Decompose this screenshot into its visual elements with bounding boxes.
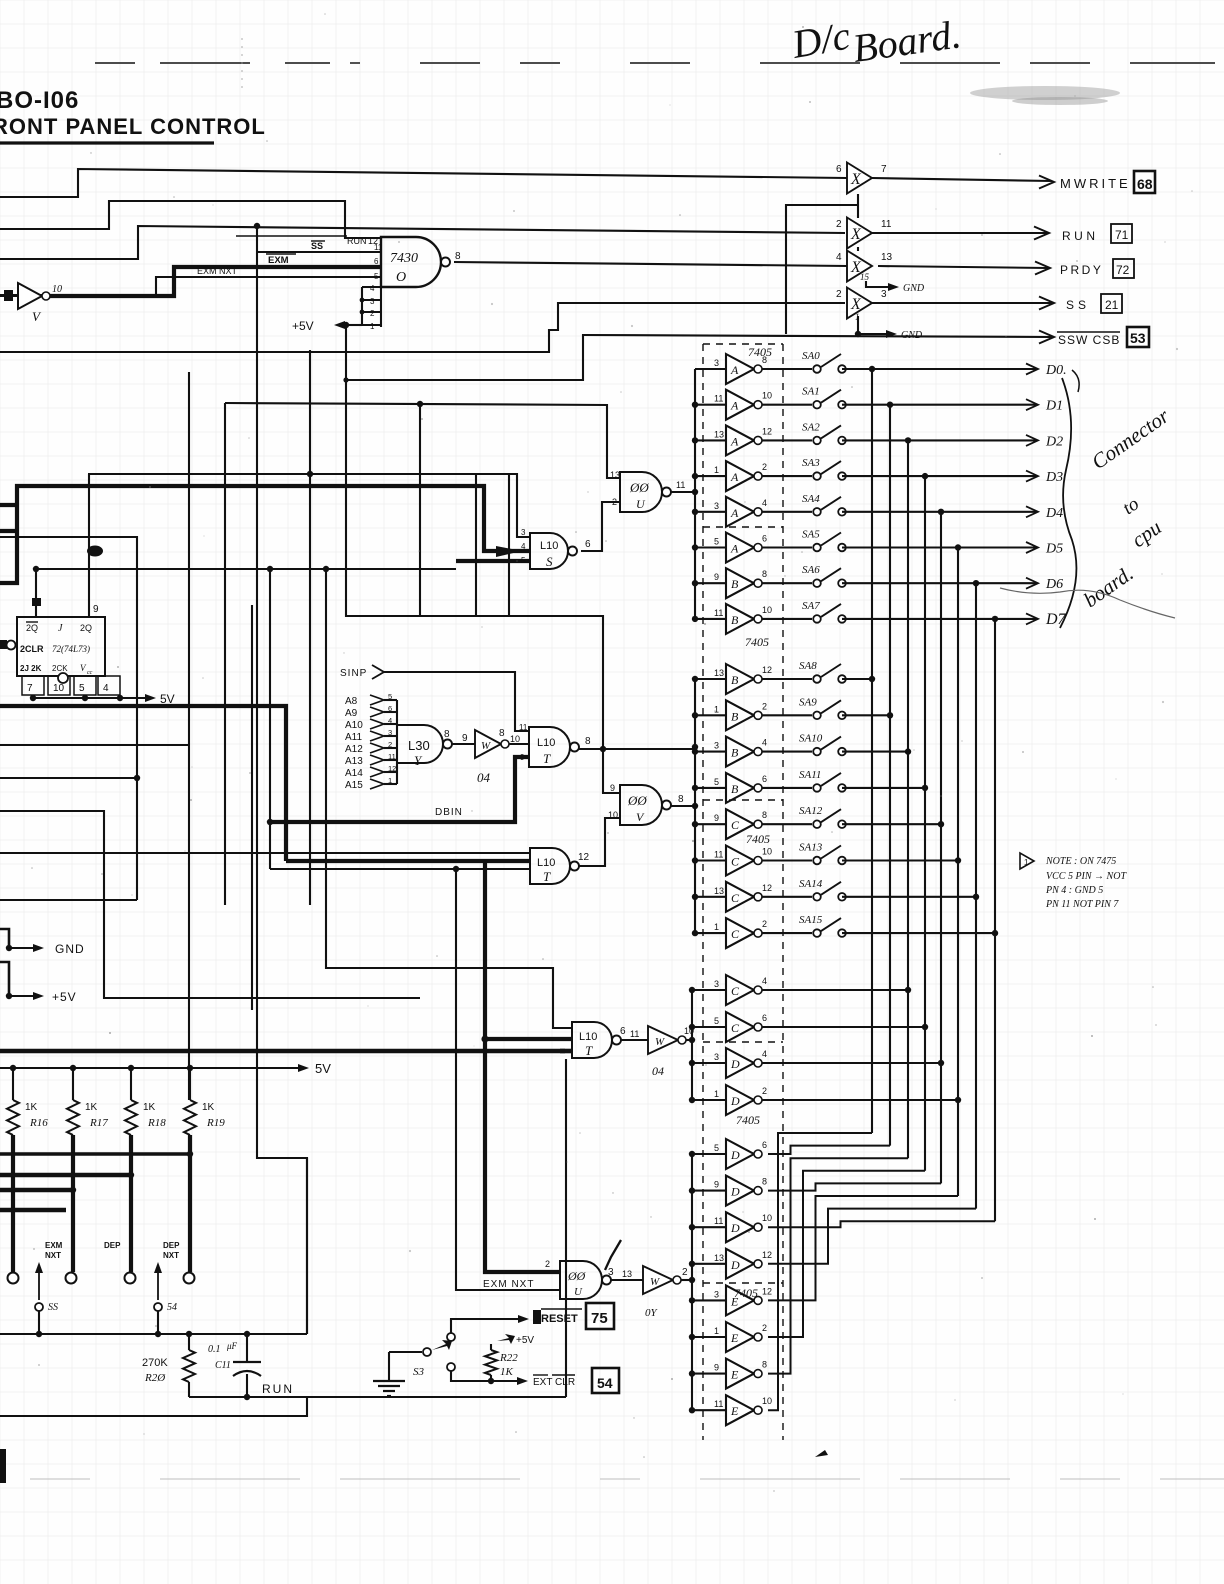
pin box 68 — [1134, 171, 1155, 193]
svg-text:D6: D6 — [1045, 577, 1063, 592]
wire L10T lower out to phiV pin10 — [579, 818, 620, 866]
svg-text:A15: A15 — [345, 780, 363, 791]
svg-text:2: 2 — [762, 701, 767, 711]
svg-text:3: 3 — [881, 289, 887, 300]
svg-text:SA6: SA6 — [802, 564, 820, 576]
wire 5V rail thin — [0, 1067, 303, 1069]
svg-text:B: B — [731, 613, 739, 627]
svg-text:3: 3 — [714, 501, 719, 511]
bus vertical 1 — [889, 405, 891, 1146]
bus vertical 0 — [871, 369, 873, 1133]
wire SS output — [872, 302, 1052, 304]
svg-text:13: 13 — [714, 668, 724, 678]
svg-text:6: 6 — [585, 539, 591, 550]
switch SA10 — [762, 751, 812, 753]
svg-text:1K: 1K — [25, 1102, 38, 1113]
inverter 7405 C SA14 — [726, 882, 754, 912]
inverter W bottom — [643, 1266, 673, 1294]
wire output ccdd0 to bus — [762, 989, 908, 991]
wire L10S out to phiU pin2 — [581, 502, 620, 551]
svg-text:2: 2 — [612, 497, 617, 507]
svg-text:SA8: SA8 — [799, 660, 817, 672]
wire 7430 pin12 input RUN-bar — [0, 201, 381, 238]
wire vertical x225 — [224, 403, 226, 905]
svg-text:C: C — [731, 984, 740, 998]
svg-text:13: 13 — [714, 886, 724, 896]
svg-text:L10: L10 — [537, 737, 555, 749]
svg-text:2CLR: 2CLR — [20, 644, 44, 654]
svg-text:6: 6 — [620, 1026, 626, 1037]
wire SA8 input stub — [695, 678, 726, 680]
svg-text:D: D — [730, 1221, 740, 1235]
svg-text:RUN: RUN — [262, 1382, 294, 1396]
wire D6 line — [842, 582, 1036, 584]
inverter 7405 E low row 8 — [726, 1395, 754, 1425]
svg-text:3: 3 — [714, 1052, 719, 1062]
svg-text:2J 2K: 2J 2K — [20, 664, 42, 673]
wire SSW CSB feed — [346, 334, 583, 380]
svg-text:RESET: RESET — [541, 1313, 578, 1325]
wire staircase 5 — [768, 1196, 958, 1337]
svg-text:10: 10 — [762, 1213, 772, 1223]
svg-text:3: 3 — [388, 728, 392, 737]
wire input stub low2 — [692, 1226, 726, 1228]
inverter 7405 A SA0 — [726, 354, 754, 384]
wire SA4 input stub — [695, 511, 726, 513]
svg-text:9: 9 — [462, 733, 468, 744]
inverter 7405 D low row 4 — [726, 1249, 754, 1279]
wire frame upper from +5V junction — [343, 322, 349, 328]
wire bottom rect — [0, 1397, 307, 1416]
wire 7430 pin6 input EXM bold — [43, 267, 381, 296]
svg-text:7405: 7405 — [745, 635, 769, 649]
wire RUN output — [872, 232, 1047, 234]
switch SA4 — [762, 511, 812, 513]
wire SA3 input stub — [695, 475, 726, 477]
svg-text:SS: SS — [311, 241, 323, 251]
svg-text:B: B — [731, 709, 739, 723]
svg-text:3: 3 — [714, 741, 719, 751]
svg-text:ØØ: ØØ — [627, 793, 647, 808]
svg-text:2: 2 — [762, 919, 767, 929]
gate L10 T lower — [530, 848, 570, 884]
pin box 53 — [1127, 327, 1149, 347]
inverter 7405 E low row 7 — [726, 1359, 754, 1389]
wire 7430 lower pin ladder — [361, 287, 363, 325]
inverter 7405 A SA2 — [726, 425, 754, 455]
svg-text:SS: SS — [1066, 298, 1090, 312]
wire input stub ccdd1 — [692, 1026, 726, 1028]
svg-text:R16: R16 — [29, 1117, 48, 1129]
svg-text:L10: L10 — [540, 540, 558, 552]
svg-text:6: 6 — [836, 164, 842, 175]
wire SA14 to bus — [842, 896, 976, 898]
svg-text:R22: R22 — [499, 1352, 518, 1364]
wire D4 line — [842, 511, 1036, 513]
wire 5V from flip-flop — [33, 695, 150, 698]
wire RUN line — [189, 1396, 566, 1398]
svg-text:J: J — [58, 623, 63, 634]
svg-text:12: 12 — [762, 883, 772, 893]
wire RUN feed — [0, 226, 845, 259]
wire bold branch to EXM NXT gate — [485, 861, 560, 1272]
svg-text:11: 11 — [881, 219, 892, 230]
inverter 7405 A SA5 — [726, 533, 754, 563]
wire SA10 input stub — [695, 751, 726, 753]
svg-text:A9: A9 — [345, 708, 358, 719]
wire bus2 input feed — [694, 679, 696, 933]
svg-text:10: 10 — [53, 683, 65, 694]
scan artifact dashed line top — [95, 62, 135, 64]
svg-text:7405: 7405 — [748, 345, 772, 359]
scan artifact dashed line bottom — [30, 1478, 90, 1480]
switch SA15 — [762, 932, 812, 934]
svg-text:8: 8 — [678, 794, 684, 805]
svg-text:O: O — [396, 270, 406, 285]
wire staircase 4 — [768, 1183, 941, 1300]
wire phiV pin9 riser — [603, 747, 620, 793]
wire L10T out — [579, 748, 695, 750]
svg-text:8: 8 — [762, 810, 767, 820]
frame junction dot — [343, 377, 348, 382]
svg-text:2: 2 — [762, 1323, 767, 1333]
wire left h474 to L10S pin3 — [88, 474, 530, 537]
note triangle marker — [1020, 853, 1034, 869]
wire bold switch row A — [0, 1152, 190, 1155]
wire bold rail y1050 — [0, 1049, 565, 1054]
svg-text:6: 6 — [374, 257, 379, 266]
svg-text:5: 5 — [388, 692, 392, 701]
svg-text:A: A — [730, 506, 739, 520]
svg-text:A: A — [730, 470, 739, 484]
svg-text:270K: 270K — [142, 1357, 168, 1369]
svg-text:SA12: SA12 — [799, 805, 823, 817]
wire R18 bottom lead — [129, 1135, 133, 1272]
svg-text:A8: A8 — [345, 696, 358, 707]
switch SA9 — [762, 714, 812, 716]
svg-text:MWRITE: MWRITE — [1060, 176, 1131, 191]
svg-text:3: 3 — [370, 297, 375, 306]
svg-text:13: 13 — [881, 252, 893, 263]
svg-text:2: 2 — [682, 1267, 688, 1278]
wire SA12 input stub — [695, 823, 726, 825]
inverter 7405 A SA4 — [726, 497, 754, 527]
gate L10 T upper — [529, 727, 570, 767]
inverter 7405 B SA10 — [726, 737, 754, 767]
svg-text:W: W — [655, 1036, 665, 1048]
svg-text:4: 4 — [762, 498, 767, 508]
svg-text:BO-I06: BO-I06 — [0, 87, 79, 114]
wire R19 bottom lead — [188, 1135, 192, 1272]
svg-text:4: 4 — [762, 1049, 767, 1059]
svg-text:7405: 7405 — [746, 832, 770, 846]
wire SA14 input stub — [695, 896, 726, 898]
svg-text:SA0: SA0 — [802, 350, 820, 362]
svg-text:EXM: EXM — [268, 255, 289, 266]
svg-text:W: W — [481, 740, 491, 752]
svg-text:PN 4 : GND 5: PN 4 : GND 5 — [1045, 885, 1103, 896]
svg-text:4: 4 — [103, 683, 109, 694]
svg-text:8: 8 — [499, 728, 505, 739]
svg-text:7405: 7405 — [736, 1113, 760, 1127]
svg-text:1: 1 — [714, 922, 719, 932]
inverter W 04 — [475, 730, 501, 758]
svg-text:X: X — [850, 296, 862, 313]
svg-text:10: 10 — [762, 391, 772, 401]
svg-text:SA4: SA4 — [802, 493, 820, 505]
svg-text:2Q: 2Q — [80, 623, 92, 633]
wire vertical x189 long — [188, 372, 190, 1100]
wire R17 top stub — [72, 1068, 74, 1100]
svg-text:3: 3 — [521, 528, 526, 537]
wire bold P3 EXM-NXT path — [0, 706, 286, 861]
svg-text:SA13: SA13 — [799, 842, 823, 854]
svg-text:12: 12 — [762, 426, 772, 436]
svg-text:SA11: SA11 — [799, 769, 821, 781]
wire R18 top stub — [130, 1068, 132, 1100]
switch SA11 — [762, 787, 812, 789]
svg-text:L30: L30 — [408, 738, 430, 753]
svg-text:4: 4 — [388, 716, 392, 725]
resistor R18 1K — [125, 1100, 137, 1135]
gate L30 Y — [397, 725, 443, 763]
svg-text:12: 12 — [762, 665, 772, 675]
wire W to L10T — [509, 743, 529, 745]
wire bold P1 to L10S pin4 — [0, 486, 530, 583]
wire SA12 to bus — [842, 823, 941, 825]
wire SA15 to bus — [842, 932, 995, 934]
svg-text:SA3: SA3 — [802, 457, 820, 469]
svg-text:11: 11 — [630, 1029, 639, 1039]
svg-text:A14: A14 — [345, 768, 363, 779]
wire to RESET — [451, 1319, 523, 1333]
svg-text:12: 12 — [762, 1250, 772, 1260]
wire SA0 input stub — [695, 368, 726, 370]
svg-text:T: T — [543, 869, 551, 884]
switch terminal 1 — [8, 1273, 19, 1284]
switch S3 throw down — [447, 1363, 455, 1371]
svg-text:L10: L10 — [579, 1031, 597, 1043]
inverter 7405 C row 2 — [726, 1012, 754, 1042]
wire staircase 6 — [768, 1209, 976, 1374]
hook after D0 — [1072, 370, 1079, 392]
wire buffer chain vertical — [857, 194, 859, 218]
svg-text:04: 04 — [652, 1064, 664, 1078]
svg-text:1: 1 — [370, 322, 375, 331]
svg-text:D: D — [730, 1185, 740, 1199]
svg-text:cc: cc — [87, 670, 93, 676]
wire D5 line — [842, 546, 1036, 548]
svg-text:B: B — [731, 673, 739, 687]
svg-text:68: 68 — [1137, 176, 1153, 192]
svg-text:7: 7 — [881, 164, 887, 175]
svg-text:A12: A12 — [345, 744, 363, 755]
wire MWRITE output — [872, 178, 1052, 181]
svg-text:72(74L73): 72(74L73) — [52, 644, 90, 654]
svg-text:NOTE : ON 7475: NOTE : ON 7475 — [1045, 856, 1116, 867]
svg-text:9: 9 — [714, 572, 719, 582]
wire input stub ccdd0 — [692, 989, 726, 991]
wire vertical x326 to h968 — [326, 570, 572, 1028]
svg-text:SA14: SA14 — [799, 878, 823, 890]
wire SA5 input stub — [695, 546, 726, 548]
wire D2 line — [842, 439, 1036, 441]
svg-text:11: 11 — [388, 752, 396, 761]
pin box 54 — [592, 1368, 619, 1393]
wire 7430 pin11 input SS-bar — [257, 251, 381, 253]
capacitor C11 0.1uF — [246, 1334, 248, 1362]
svg-text:4: 4 — [762, 738, 767, 748]
wire input stub low1 — [692, 1190, 726, 1192]
wire D0 line — [842, 368, 1036, 370]
svg-text:S: S — [546, 554, 553, 569]
wire vertical x252 — [251, 605, 253, 1010]
wire vertical long x257 — [257, 226, 307, 1334]
svg-text:1: 1 — [714, 1326, 719, 1336]
svg-text:B: B — [731, 577, 739, 591]
flip-flop 72(74L73) — [17, 617, 105, 676]
svg-text:2: 2 — [545, 1259, 550, 1269]
wire R16 top stub — [12, 1068, 14, 1100]
wire SINP to L10T pin11 — [384, 672, 529, 731]
svg-text:13: 13 — [714, 1253, 724, 1263]
wire input stub ccdd3 — [692, 1099, 726, 1101]
svg-text:A: A — [730, 434, 739, 448]
ground symbol S3 — [388, 1352, 390, 1381]
svg-text:9: 9 — [714, 1363, 719, 1373]
smudge top right — [970, 86, 1120, 100]
wire SA11 input stub — [695, 787, 726, 789]
inverter 7405 D low row 1 — [726, 1139, 754, 1169]
wire L30 to W — [452, 743, 475, 745]
svg-text:6: 6 — [762, 534, 767, 544]
bus vertical 5 — [957, 548, 959, 1197]
svg-text:4: 4 — [370, 284, 375, 293]
+5v stub bracket — [0, 962, 9, 996]
address input ladder — [396, 700, 398, 784]
svg-text:W: W — [650, 1276, 660, 1288]
wire SS buffer feed — [0, 303, 845, 352]
bus vertical 7 — [994, 619, 996, 1221]
inverter 7405 E low row 6 — [726, 1322, 754, 1352]
svg-text:10: 10 — [52, 284, 62, 295]
svg-text:54: 54 — [167, 1302, 177, 1313]
svg-text:D: D — [730, 1094, 740, 1108]
wire left h403 to phi-U pin13 — [225, 403, 620, 478]
svg-text:SA10: SA10 — [799, 733, 823, 745]
svg-text:9: 9 — [714, 813, 719, 823]
svg-text:21: 21 — [1105, 298, 1119, 312]
inverter 7405 C SA12 — [726, 809, 754, 839]
torn paper squiggle — [1000, 588, 1175, 618]
switch SA3 — [762, 475, 812, 477]
inverter 7405 C SA13 — [726, 846, 754, 876]
svg-text:2: 2 — [762, 462, 767, 472]
switch terminal 4 — [184, 1273, 195, 1284]
wire buffer enable vertical — [786, 205, 858, 334]
wire staircase 1 — [768, 1146, 890, 1191]
wire left h900 — [0, 899, 137, 901]
wire vertical x476 — [475, 474, 477, 616]
arrow up S4 — [157, 1268, 159, 1300]
svg-text:SS: SS — [48, 1302, 58, 1313]
svg-text:R2Ø: R2Ø — [144, 1372, 166, 1384]
svg-text:RUN: RUN — [1062, 229, 1099, 243]
svg-text:SA15: SA15 — [799, 914, 823, 926]
wire vertical x456 — [456, 869, 560, 1290]
svg-text:9: 9 — [610, 783, 615, 793]
svg-text:5: 5 — [714, 1016, 719, 1026]
svg-text:8: 8 — [762, 1360, 767, 1370]
inverter 7405 B SA6 — [726, 568, 754, 598]
buffer X PRDY — [847, 251, 872, 282]
svg-text:μF: μF — [226, 1341, 238, 1351]
svg-text:EXT CLR: EXT CLR — [533, 1377, 575, 1388]
switch terminal 2 — [66, 1273, 77, 1284]
svg-text:SINP: SINP — [340, 668, 367, 679]
wire bottom line y1334 — [0, 1333, 307, 1335]
buffer X RUN — [847, 218, 872, 249]
svg-text:SA5: SA5 — [802, 529, 820, 541]
wire staircase 7 — [768, 1221, 995, 1410]
wire 7430 output to PRDY — [454, 262, 847, 266]
wire SA11 to bus — [842, 787, 925, 789]
svg-text:2: 2 — [836, 219, 842, 230]
resistor R19 1K — [184, 1100, 196, 1135]
switch SA6 — [762, 582, 812, 584]
resistor R16 1K — [7, 1100, 19, 1135]
wire left h537 to x137 — [0, 537, 137, 778]
svg-text:1K: 1K — [500, 1366, 514, 1378]
svg-text:SSW CSB: SSW CSB — [1058, 333, 1120, 347]
svg-text:11: 11 — [714, 1216, 723, 1226]
inverter 7405 D low row 2 — [726, 1176, 754, 1206]
svg-text:10: 10 — [762, 1396, 772, 1406]
buffer X SS — [847, 288, 872, 319]
svg-text:2: 2 — [836, 289, 842, 300]
pin box 21 — [1101, 294, 1122, 313]
switch SA13 — [762, 859, 812, 861]
svg-text:8: 8 — [762, 1177, 767, 1187]
inverter W third — [648, 1026, 678, 1054]
svg-text:10: 10 — [762, 847, 772, 857]
svg-text:1K: 1K — [202, 1102, 215, 1113]
wire PRDY output — [878, 266, 1048, 268]
svg-text:7: 7 — [27, 683, 33, 694]
wire staircase 0 — [768, 1133, 872, 1154]
svg-text:DEP: DEP — [104, 1241, 121, 1250]
wire frame x346 to x603 — [346, 325, 603, 747]
gate phi-phi V — [620, 785, 662, 825]
switch SA7 — [762, 618, 812, 620]
wire vertical x566 — [565, 1059, 567, 1397]
svg-text:PRDY: PRDY — [1060, 263, 1103, 277]
arrow up SS — [38, 1268, 40, 1300]
svg-text:PN 11 NOT PIN 7: PN 11 NOT PIN 7 — [1045, 899, 1119, 910]
wire vertical x509 — [508, 474, 510, 616]
inverter 7405 D row 4 — [726, 1085, 754, 1115]
wire bus4 feed vertical — [691, 1154, 693, 1409]
svg-text:+5V: +5V — [52, 990, 77, 1004]
switch terminal 3 — [125, 1273, 136, 1284]
inverter 7405 B SA8 — [726, 664, 754, 694]
svg-text:DEP: DEP — [163, 1241, 180, 1250]
wire throw to EXT CLR — [451, 1371, 522, 1381]
svg-text:8: 8 — [444, 729, 450, 740]
svg-text:EXM NXT: EXM NXT — [483, 1279, 534, 1290]
svg-text:11: 11 — [374, 243, 383, 252]
wire input stub low0 — [692, 1153, 726, 1155]
